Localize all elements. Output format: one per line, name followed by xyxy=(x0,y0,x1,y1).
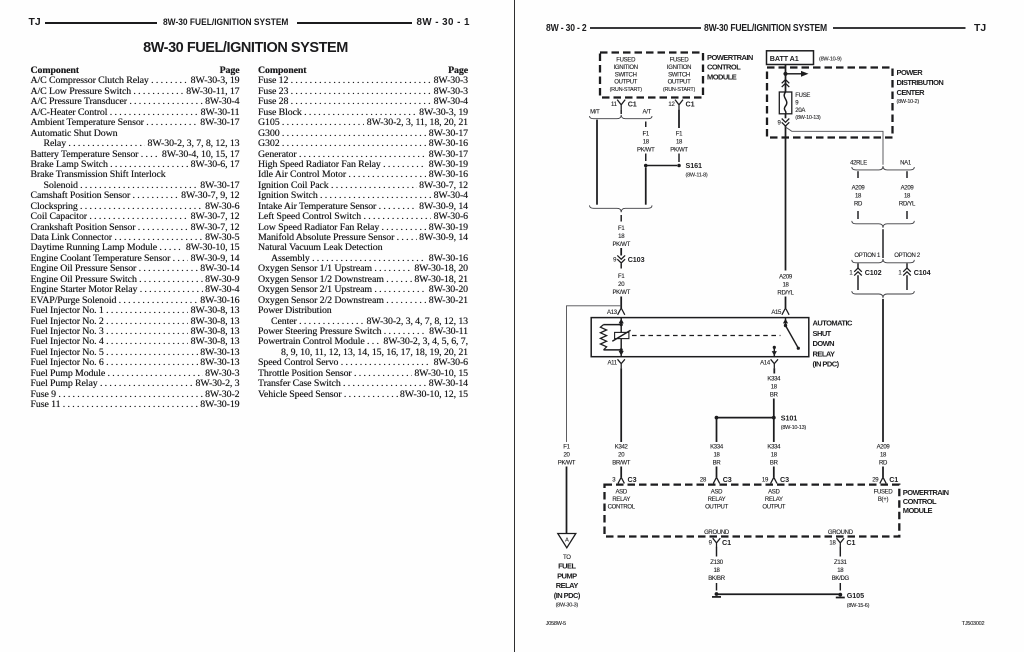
svg-text:BR: BR xyxy=(713,461,722,467)
svg-text:FUSE: FUSE xyxy=(795,93,810,99)
wire label A209 18 RD/YL xyxy=(777,274,794,296)
svg-text:FUSED: FUSED xyxy=(874,489,894,495)
svg-text:BR: BR xyxy=(770,461,779,467)
connector C102 xyxy=(849,263,881,290)
wire 42RLE lower stub xyxy=(857,211,859,219)
wire into A15 xyxy=(785,297,787,309)
relay switch blade xyxy=(783,318,800,350)
PCM pin 12 internal label: FUSED IGNITION SWITCH OUTPUT (RUN-START) xyxy=(663,58,696,94)
svg-text:OUTPUT: OUTPUT xyxy=(614,80,638,86)
relay coil element symbol xyxy=(612,330,630,341)
wire C1-12 down xyxy=(678,110,680,128)
svg-text:K334: K334 xyxy=(767,445,781,451)
wire NA1 lower stub xyxy=(906,211,908,219)
wire C103 to A13 xyxy=(620,297,622,309)
relay K1 title: AUTOMATIC SHUT DOWN RELAY (IN PDC) xyxy=(813,319,853,369)
connector C3 pin 19 xyxy=(762,475,789,484)
svg-text:28: 28 xyxy=(700,478,707,484)
svg-text:OUTPUT: OUTPUT xyxy=(705,504,729,510)
wire label F1 18 PK/WT (A/T branch) xyxy=(637,132,655,154)
merge brace 42RLE/NA1 xyxy=(852,221,915,228)
page header left rule xyxy=(590,27,701,29)
svg-text:(8W-30-3): (8W-30-3) xyxy=(556,603,579,609)
wire branch to transmission options xyxy=(786,127,884,165)
op PCM box (top, dashed) xyxy=(600,53,703,98)
svg-text:ASD: ASD xyxy=(711,489,723,495)
wire label Z130 18 BK/BR xyxy=(708,560,725,582)
svg-text:CONTROL: CONTROL xyxy=(707,63,741,72)
wire S101 branch down to PCM pin 28 xyxy=(716,418,718,442)
wire merge to option split xyxy=(882,229,884,258)
svg-text:RELAY: RELAY xyxy=(612,497,630,503)
PDC box (dashed) xyxy=(767,68,893,138)
svg-text:AUTOMATIC: AUTOMATIC xyxy=(813,319,853,328)
page header right rule xyxy=(833,27,966,29)
svg-text:(IN PDC): (IN PDC) xyxy=(813,360,840,369)
ground bus wire xyxy=(717,593,841,595)
PCM box (bottom, dashed) xyxy=(605,485,900,537)
svg-text:FUSED: FUSED xyxy=(616,58,636,64)
wire label A209 18 RD/YL xyxy=(899,185,916,207)
svg-text:9: 9 xyxy=(613,258,617,264)
svg-text:18: 18 xyxy=(713,568,720,574)
wire label A209 18 RD xyxy=(852,185,866,207)
svg-text:RELAY: RELAY xyxy=(765,497,783,503)
svg-text:C104: C104 xyxy=(914,268,931,277)
split brace options xyxy=(852,259,915,263)
svg-text:BATT A1: BATT A1 xyxy=(770,54,799,63)
svg-text:IGNITION: IGNITION xyxy=(667,65,691,71)
wire A/T branch (dashed stub) xyxy=(645,122,647,128)
wire stub into S161 xyxy=(678,154,680,163)
svg-text:SWITCH: SWITCH xyxy=(668,72,690,78)
svg-text:A/T: A/T xyxy=(643,110,652,116)
connector C3 pin 3 xyxy=(612,475,636,484)
wire label K342 20 BR/WT xyxy=(612,445,630,467)
wire label F1 18 PK/WT xyxy=(612,226,630,248)
svg-text:20: 20 xyxy=(563,453,570,459)
merge brace options xyxy=(852,291,915,298)
fuse pin 9 (male, chevrons) xyxy=(777,114,789,127)
relay actuation dashed link xyxy=(632,335,781,337)
svg-text:K342: K342 xyxy=(615,445,629,451)
svg-text:RD/YL: RD/YL xyxy=(899,201,916,207)
battery feed BATT A1 box xyxy=(767,51,814,65)
svg-text:F1: F1 xyxy=(676,132,683,138)
svg-text:MODULE: MODULE xyxy=(707,72,737,81)
node TO FUEL PUMP RELAY (IN PDC) label xyxy=(554,555,581,609)
wire label A209 18 RD xyxy=(877,445,891,467)
svg-text:12: 12 xyxy=(668,102,675,108)
svg-text:3: 3 xyxy=(612,478,616,484)
wire BATT A1 into PDC xyxy=(785,65,787,93)
svg-text:18: 18 xyxy=(904,193,911,199)
svg-text:A209: A209 xyxy=(852,185,866,191)
svg-text:G105: G105 xyxy=(847,591,864,600)
svg-text:9: 9 xyxy=(709,541,713,547)
svg-text:CONTROL: CONTROL xyxy=(608,504,636,510)
svg-text:18: 18 xyxy=(771,384,778,390)
svg-text:A209: A209 xyxy=(877,445,891,451)
svg-text:A: A xyxy=(565,537,569,543)
svg-text:ASD: ASD xyxy=(615,489,627,495)
svg-text:CENTER: CENTER xyxy=(897,88,926,97)
wire stub above S161 xyxy=(645,154,647,162)
PCM pin 28 label: ASD RELAY OUTPUT xyxy=(705,489,729,510)
svg-text:PK/WT: PK/WT xyxy=(670,148,688,154)
PCM pin 11 internal label: FUSED IGNITION SWITCH OUTPUT (RUN-START) xyxy=(610,58,643,94)
wire relay coil feed (A13 internal) xyxy=(619,318,624,357)
svg-text:SWITCH: SWITCH xyxy=(615,72,637,78)
wire to fuel pump arrow xyxy=(566,467,568,534)
splice S101 xyxy=(715,413,807,431)
wire label K334 18 BR (pin 19) xyxy=(767,445,781,467)
wire Z130 lower stub xyxy=(716,583,718,591)
svg-text:PK/WT: PK/WT xyxy=(612,242,630,248)
svg-text:RD: RD xyxy=(879,461,888,467)
svg-text:A15: A15 xyxy=(771,310,782,316)
svg-text:18: 18 xyxy=(829,541,836,547)
node coil top junction xyxy=(620,323,623,326)
svg-text:(8W-10-13): (8W-10-13) xyxy=(781,425,807,431)
svg-text:CONTROL: CONTROL xyxy=(903,497,937,506)
svg-text:TJ: TJ xyxy=(974,23,986,34)
svg-text:OPTION 1: OPTION 1 xyxy=(854,253,881,259)
svg-text:PK/WT: PK/WT xyxy=(637,148,655,154)
wire A209 down to PCM xyxy=(882,299,884,442)
svg-text:S101: S101 xyxy=(781,413,797,422)
svg-text:BK/DG: BK/DG xyxy=(832,576,850,582)
svg-text:F1: F1 xyxy=(618,226,625,232)
svg-text:BK/BR: BK/BR xyxy=(708,576,725,582)
svg-text:18: 18 xyxy=(837,568,844,574)
svg-text:18: 18 xyxy=(676,140,683,146)
svg-text:18: 18 xyxy=(713,453,720,459)
svg-text:8W-30 FUEL/IGNITION SYSTEM: 8W-30 FUEL/IGNITION SYSTEM xyxy=(704,23,827,34)
svg-text:(8W-10-9): (8W-10-9) xyxy=(819,56,842,62)
svg-text:C1: C1 xyxy=(686,99,695,108)
svg-text:PK/WT: PK/WT xyxy=(558,461,576,467)
svg-text:TO: TO xyxy=(563,555,571,561)
connector C1 pin 11 xyxy=(611,99,637,109)
svg-text:DOWN: DOWN xyxy=(813,339,835,348)
wire label K334 18 BR (pin 28) xyxy=(710,445,724,467)
svg-text:(8W-10-2): (8W-10-2) xyxy=(897,99,920,105)
svg-text:A13: A13 xyxy=(607,310,618,316)
fuse F9 socket (female, chevrons) xyxy=(782,80,790,88)
svg-text:GROUND: GROUND xyxy=(704,530,730,536)
merge brace to F1 xyxy=(590,205,653,212)
svg-text:18: 18 xyxy=(880,453,887,459)
svg-text:POWER: POWER xyxy=(897,68,924,77)
svg-text:C1: C1 xyxy=(846,538,855,547)
svg-text:F1: F1 xyxy=(563,445,570,451)
svg-text:(RUN-START): (RUN-START) xyxy=(610,87,643,93)
connector C104 xyxy=(898,263,930,290)
module U1 title: POWERTRAIN CONTROL MODULE xyxy=(707,53,753,81)
svg-text:S161: S161 xyxy=(686,161,702,170)
svg-text:IGNITION: IGNITION xyxy=(614,65,638,71)
fuse F9 xyxy=(779,92,821,121)
svg-text:(RUN-START): (RUN-START) xyxy=(663,87,696,93)
svg-text:K334: K334 xyxy=(710,445,724,451)
split brace 42RLE/NA1 xyxy=(852,166,915,170)
PCM pin 29 label: FUSED B(+) xyxy=(874,489,894,503)
svg-text:18: 18 xyxy=(643,140,650,146)
relay common contact to A14 xyxy=(772,346,777,357)
svg-text:POWERTRAIN: POWERTRAIN xyxy=(903,488,949,497)
svg-text:19: 19 xyxy=(762,478,769,484)
splice S161 xyxy=(644,161,708,178)
svg-text:A209: A209 xyxy=(779,274,793,280)
svg-text:Z131: Z131 xyxy=(834,560,847,566)
connector C103 xyxy=(613,255,644,269)
svg-text:8W - 30 - 2: 8W - 30 - 2 xyxy=(546,23,587,34)
svg-text:18: 18 xyxy=(782,282,789,288)
svg-text:BR/WT: BR/WT xyxy=(612,461,630,467)
svg-text:RELAY: RELAY xyxy=(556,581,579,590)
svg-text:20: 20 xyxy=(618,282,625,288)
svg-text:DISTRIBUTION: DISTRIBUTION xyxy=(897,78,944,87)
svg-text:42RLE: 42RLE xyxy=(850,160,867,166)
svg-text:(IN PDC): (IN PDC) xyxy=(554,591,581,600)
svg-text:NA1: NA1 xyxy=(900,160,912,166)
connector C3 pin 28 xyxy=(700,475,732,484)
svg-text:C1: C1 xyxy=(628,99,637,108)
svg-text:18: 18 xyxy=(771,453,778,459)
node coil bottom junction xyxy=(620,348,623,351)
module U1 title: POWERTRAIN CONTROL MODULE xyxy=(903,488,949,515)
svg-text:A11: A11 xyxy=(607,361,617,367)
ground G105 xyxy=(836,591,870,609)
svg-text:MODULE: MODULE xyxy=(903,506,933,515)
svg-text:FUEL: FUEL xyxy=(558,562,576,571)
svg-text:A209: A209 xyxy=(901,185,915,191)
wire label F1 20 PK/WT (fuel pump branch) xyxy=(558,445,576,467)
wire Z130 upper xyxy=(716,547,718,557)
wire M/T branch xyxy=(596,120,598,205)
svg-text:K334: K334 xyxy=(767,376,781,382)
ground terminal (Z130) xyxy=(712,592,721,597)
svg-text:C3: C3 xyxy=(723,475,732,484)
svg-text:18: 18 xyxy=(618,234,625,240)
svg-text:A14: A14 xyxy=(760,361,771,367)
svg-text:F1: F1 xyxy=(618,274,625,280)
wire label F1 18 PK/WT (C1-12 wire) xyxy=(670,132,688,154)
svg-text:20A: 20A xyxy=(795,108,805,114)
svg-text:C1: C1 xyxy=(722,538,731,547)
svg-text:F1: F1 xyxy=(643,132,650,138)
svg-text:C3: C3 xyxy=(780,475,789,484)
svg-text:(8W-11-8): (8W-11-8) xyxy=(686,173,708,179)
svg-text:PUMP: PUMP xyxy=(557,571,577,580)
svg-text:C103: C103 xyxy=(628,255,645,264)
svg-text:PK/WT: PK/WT xyxy=(612,290,630,296)
relay K1 box: AUTOMATIC SHUT DOWN RELAY xyxy=(591,318,809,357)
svg-text:OUTPUT: OUTPUT xyxy=(668,80,692,86)
svg-text:RELAY: RELAY xyxy=(813,349,836,358)
wire stub below merge xyxy=(620,215,622,222)
svg-text:B(+): B(+) xyxy=(878,497,889,503)
svg-text:9: 9 xyxy=(777,120,781,126)
svg-text:1: 1 xyxy=(849,271,853,277)
connector C1 pin 29 xyxy=(872,475,898,484)
wire label K334 18 BR (A14) xyxy=(767,376,781,398)
svg-text:RD/YL: RD/YL xyxy=(777,290,794,296)
svg-text:ASD: ASD xyxy=(768,489,780,495)
connector C1 pin 18 xyxy=(829,538,855,547)
svg-text:SHUT: SHUT xyxy=(813,329,832,338)
svg-text:11: 11 xyxy=(611,102,618,108)
svg-text:RELAY: RELAY xyxy=(708,497,726,503)
pin A14 xyxy=(760,359,778,368)
pin A11 xyxy=(607,359,624,368)
wire Z131 upper xyxy=(839,547,841,557)
svg-text:C3: C3 xyxy=(628,475,637,484)
connector C1 pin 12 xyxy=(668,99,694,109)
resistor (relay coil winding) xyxy=(600,325,621,350)
node junction with bus arrow xyxy=(783,71,808,77)
wire into C103 xyxy=(620,248,622,256)
svg-text:29: 29 xyxy=(872,478,879,484)
svg-text:(8W-10-13): (8W-10-13) xyxy=(795,115,821,121)
pin A13 xyxy=(607,308,625,316)
wire C1-11 to M/T A/T split xyxy=(620,110,622,114)
wire label F1 20 PK/WT xyxy=(612,274,630,296)
PCM pin 19 label: ASD RELAY OUTPUT xyxy=(762,489,786,510)
wire A11 to PCM pin 3 xyxy=(620,368,622,442)
svg-text:M/T: M/T xyxy=(590,110,600,116)
connector C1 pin 9 xyxy=(709,538,731,547)
PDC title: POWER DISTRIBUTION CENTER xyxy=(897,68,944,105)
svg-text:9: 9 xyxy=(795,100,799,106)
wire NA1 stub xyxy=(906,171,908,178)
svg-text:RD: RD xyxy=(854,201,863,207)
wire label Z131 18 BK/DG xyxy=(832,560,850,582)
wire stubs into PCM pins xyxy=(620,467,622,478)
svg-text:OUTPUT: OUTPUT xyxy=(762,504,786,510)
wire fuse to A15 (A209 feed) xyxy=(785,126,787,271)
svg-text:BR: BR xyxy=(770,392,779,398)
svg-text:20: 20 xyxy=(618,453,625,459)
off-page arrow A to fuel pump relay xyxy=(558,534,576,548)
wire A14 down xyxy=(773,368,775,373)
svg-text:Z130: Z130 xyxy=(710,560,723,566)
PCM pin 3 label: ASD RELAY CONTROL xyxy=(608,489,636,510)
wire into S101 xyxy=(773,399,775,443)
svg-text:C102: C102 xyxy=(865,268,882,277)
wire A/T below S161 xyxy=(645,167,647,204)
svg-text:FUSED: FUSED xyxy=(670,58,690,64)
pin A15 xyxy=(771,308,789,316)
svg-text:18: 18 xyxy=(855,193,862,199)
svg-text:GROUND: GROUND xyxy=(828,530,854,536)
wire tap to fuel pump relay branch xyxy=(567,306,622,442)
svg-text:1: 1 xyxy=(898,271,902,277)
split brace M/T A/T xyxy=(590,115,653,119)
svg-text:J058W-5: J058W-5 xyxy=(546,621,566,627)
wire Z131 lower stub xyxy=(839,583,841,591)
wire 42RLE stub xyxy=(857,171,859,178)
svg-text:POWERTRAIN: POWERTRAIN xyxy=(707,53,753,62)
svg-text:OPTION 2: OPTION 2 xyxy=(894,253,921,259)
svg-text:C1: C1 xyxy=(889,475,898,484)
svg-text:TJ503002: TJ503002 xyxy=(962,621,985,627)
svg-text:(8W-15-6): (8W-15-6) xyxy=(847,603,870,609)
